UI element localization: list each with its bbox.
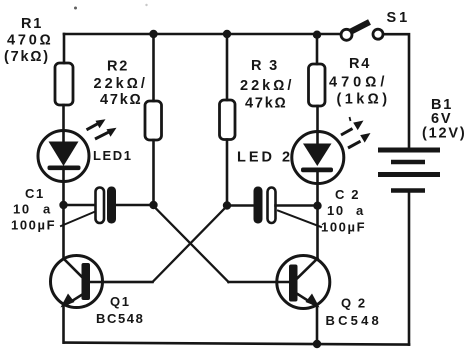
svg-text:(7kΩ): (7kΩ) bbox=[4, 49, 50, 65]
svg-text:S1: S1 bbox=[387, 10, 411, 26]
svg-text:C 2: C 2 bbox=[335, 187, 360, 202]
svg-text:Q 2: Q 2 bbox=[341, 296, 367, 311]
svg-text:47kΩ: 47kΩ bbox=[100, 92, 143, 108]
svg-text:a: a bbox=[356, 203, 365, 218]
svg-text:100µF: 100µF bbox=[321, 220, 366, 235]
svg-text:Q1: Q1 bbox=[110, 294, 131, 309]
svg-text:22kΩ/: 22kΩ/ bbox=[94, 76, 148, 92]
svg-text:100µF: 100µF bbox=[11, 218, 56, 233]
svg-text:470Ω/: 470Ω/ bbox=[329, 75, 388, 91]
svg-text:BC548: BC548 bbox=[96, 311, 144, 326]
svg-text:470Ω: 470Ω bbox=[7, 33, 54, 49]
svg-text:BC548: BC548 bbox=[326, 313, 382, 328]
svg-text:22kΩ/: 22kΩ/ bbox=[240, 78, 294, 94]
svg-text:R4: R4 bbox=[349, 56, 371, 72]
svg-text:10: 10 bbox=[327, 203, 345, 218]
svg-text:LED 2: LED 2 bbox=[237, 150, 293, 166]
svg-text:10: 10 bbox=[13, 202, 31, 217]
svg-text:LED1: LED1 bbox=[93, 148, 133, 163]
svg-text:47kΩ: 47kΩ bbox=[245, 96, 288, 112]
svg-text:(1kΩ): (1kΩ) bbox=[337, 92, 391, 108]
svg-text:C1: C1 bbox=[25, 186, 45, 201]
svg-text:(12V): (12V) bbox=[422, 126, 466, 142]
svg-text:a: a bbox=[43, 202, 52, 217]
svg-text:R2: R2 bbox=[107, 59, 129, 75]
svg-text:R 3: R 3 bbox=[251, 58, 279, 74]
svg-text:R1: R1 bbox=[21, 16, 43, 32]
